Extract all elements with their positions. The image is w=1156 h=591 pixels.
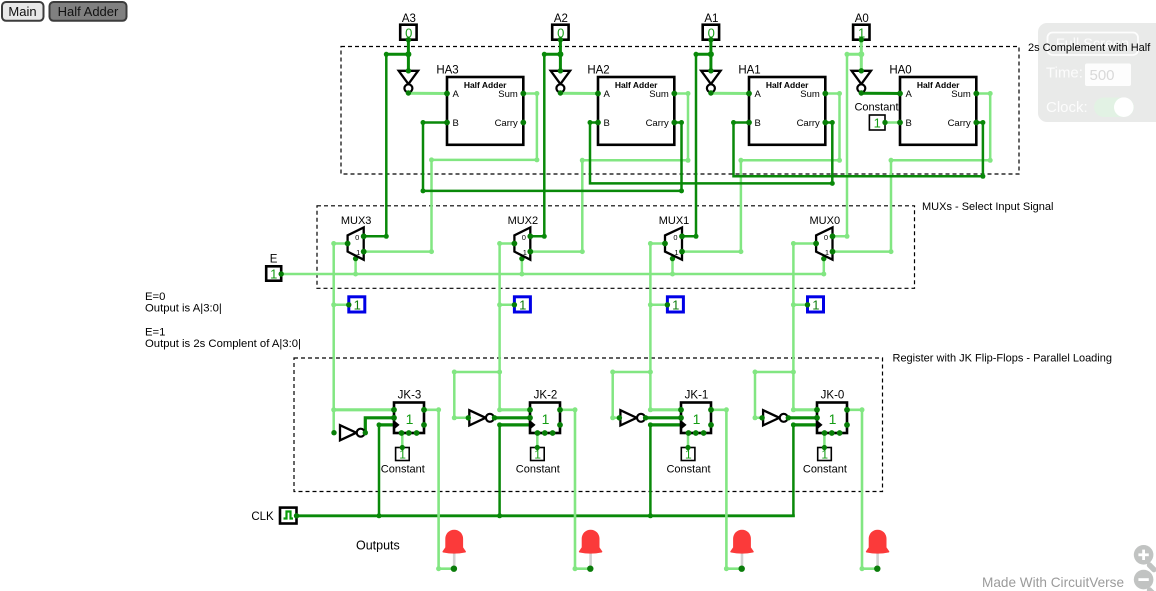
half adder HA2 (subcircuit box) <box>587 65 677 145</box>
svg-text:A3: A3 <box>402 13 416 25</box>
multiplexer MUX3 <box>341 215 372 260</box>
wire NOT-K1 output to JK K <box>646 416 681 419</box>
constant 1 below JK-2 <box>516 445 560 476</box>
svg-text:JK-1: JK-1 <box>685 389 709 401</box>
svg-text:B: B <box>604 118 610 129</box>
svg-text:Register with JK Flip-Flops -: Register with JK Flip-Flops - Parallel L… <box>893 353 1112 365</box>
LED output 1 (lit red) <box>730 530 753 572</box>
svg-text:A: A <box>604 89 611 100</box>
properties panel <box>1038 23 1156 122</box>
wire A1 input to top junction <box>709 40 712 54</box>
wire A0 input to top junction <box>860 40 863 54</box>
wire A0 to NOT gate <box>860 54 863 71</box>
svg-text:0: 0 <box>355 233 359 242</box>
zoom in button <box>1134 545 1156 573</box>
svg-text:Sum: Sum <box>498 89 518 100</box>
svg-text:0: 0 <box>824 233 828 242</box>
wire A2 raw branch to MUX2 input 0 <box>544 53 560 56</box>
not gate (inverter) for A0 <box>852 68 871 96</box>
svg-text:500: 500 <box>1090 67 1115 84</box>
wire MUX3 output net <box>334 244 348 305</box>
svg-text:Output is A|3:0|: Output is A|3:0| <box>145 303 222 315</box>
svg-text:Half Adder: Half Adder <box>58 4 119 19</box>
not gate for JK-3 K input <box>331 425 368 440</box>
wire A3 raw branch to MUX3 input 0 <box>386 53 408 56</box>
input A3 <box>400 13 416 43</box>
wire E select bus <box>281 273 824 276</box>
input E (select) <box>266 253 284 281</box>
wire A2 to NOT gate <box>559 54 562 71</box>
wire A2 input to top junction <box>559 40 562 54</box>
wire branch to K inverter 0 <box>755 372 793 418</box>
svg-text:MUX2: MUX2 <box>508 215 539 227</box>
LED output 2 (lit red) <box>579 530 602 572</box>
wire mux2 net down to JK J input <box>498 305 501 410</box>
wire NOT-K2 output to JK K <box>495 416 531 419</box>
svg-text:Sum: Sum <box>649 89 669 100</box>
svg-text:HA3: HA3 <box>436 65 458 77</box>
svg-text:Carry: Carry <box>646 118 669 129</box>
svg-text:Sum: Sum <box>800 89 820 100</box>
svg-text:1: 1 <box>523 248 527 257</box>
wire HA2 Carry to HA3 pin B <box>423 123 682 191</box>
wire mux1 net down to JK J input <box>649 305 652 410</box>
wire A3 to NOT gate <box>407 54 410 71</box>
constant 1 below JK-3 <box>381 445 425 476</box>
wire to output box 1 <box>650 304 667 307</box>
svg-text:2s Complement with Half: 2s Complement with Half <box>1028 42 1151 54</box>
constant 1 below JK-0 <box>803 445 847 476</box>
svg-text:HA0: HA0 <box>889 65 911 77</box>
not gate (inverter) for A1 <box>701 68 720 96</box>
constant 1 feeding HA0 B <box>854 102 898 131</box>
wire Constant to JK-1 preset <box>687 433 690 448</box>
wire clock to JK-2 <box>498 425 501 516</box>
wire JK-2 Q to LED <box>560 410 590 569</box>
tab: Main <box>2 2 44 21</box>
wire CLK bus <box>297 514 794 517</box>
wire HA1 Carry to HA2 pin B <box>590 123 832 184</box>
svg-text:A1: A1 <box>704 13 718 25</box>
svg-text:Constant: Constant <box>381 464 425 476</box>
svg-text:B: B <box>755 118 761 129</box>
wire A3 input to top junction <box>407 40 410 54</box>
wire HA1 Sum to MUX1 input 1 <box>682 94 840 252</box>
svg-text:0: 0 <box>522 233 526 242</box>
half adder HA1 (subcircuit box) <box>738 65 828 145</box>
wire clock to JK-0 <box>792 425 795 516</box>
svg-text:Constant: Constant <box>666 464 710 476</box>
dashed box: MUX region <box>317 206 915 288</box>
wire HA2 Sum to MUX2 input 1 <box>530 94 688 252</box>
wire HA0 Carry to HA1 pin B <box>734 123 983 177</box>
svg-text:1: 1 <box>354 298 361 313</box>
svg-text:B: B <box>906 118 912 129</box>
svg-text:1: 1 <box>812 298 819 313</box>
wire branch to K inverter 2 <box>454 372 499 418</box>
wire NOT0 output to HA0 pin A <box>861 92 900 95</box>
JK flip-flop JK-3 <box>391 389 427 436</box>
svg-text:MUX3: MUX3 <box>341 215 372 227</box>
wire MUX select stub <box>671 256 674 275</box>
input A1 <box>703 13 719 43</box>
svg-text:A0: A0 <box>855 13 869 25</box>
svg-text:0: 0 <box>673 233 677 242</box>
wire A1 to NOT gate <box>709 54 712 71</box>
not gate for JK-0 K input <box>759 410 791 425</box>
svg-text:E=0: E=0 <box>145 291 165 303</box>
wire A1 raw branch to MUX1 input 0 <box>696 53 711 56</box>
svg-text:1: 1 <box>674 248 678 257</box>
svg-text:Carry: Carry <box>948 118 971 129</box>
svg-text:Made With CircuitVerse: Made With CircuitVerse <box>982 575 1124 590</box>
svg-text:JK-2: JK-2 <box>534 389 558 401</box>
wire MUX select stub <box>354 256 357 275</box>
svg-text:A: A <box>453 89 460 100</box>
wire branch to K inverter 1 <box>613 372 651 418</box>
svg-text:Outputs: Outputs <box>356 539 400 553</box>
svg-text:A: A <box>755 89 762 100</box>
output box O1 (value 1) <box>665 297 684 313</box>
constant 1 below JK-1 <box>666 445 710 476</box>
svg-text:1: 1 <box>406 411 414 427</box>
svg-text:Constant: Constant <box>854 102 898 114</box>
wire Constant to HA0 pin B <box>885 121 900 124</box>
not gate (inverter) for A2 <box>551 68 570 96</box>
svg-text:Output is 2s Complent of A|3:0: Output is 2s Complent of A|3:0| <box>145 338 301 350</box>
multiplexer MUX0 <box>810 215 841 260</box>
wire to output box 2 <box>500 304 515 307</box>
svg-text:HA2: HA2 <box>587 65 609 77</box>
svg-text:Constant: Constant <box>516 464 560 476</box>
wire JK-0 Q to LED <box>847 410 877 569</box>
JK flip-flop JK-0 <box>814 389 850 436</box>
svg-text:JK-3: JK-3 <box>398 389 422 401</box>
wire mux3 net down to JK-3 J and NOT input <box>332 305 335 433</box>
half adder HA0 (subcircuit box) <box>889 65 979 145</box>
svg-text:1: 1 <box>356 248 360 257</box>
multiplexer MUX1 <box>659 215 690 260</box>
wire HA3 Sum to MUX3 input 1 <box>364 94 537 252</box>
LED output 3 (lit red) <box>442 530 465 572</box>
LED output 0 (lit red) <box>866 530 889 572</box>
svg-text:B: B <box>453 118 459 129</box>
svg-text:MUX0: MUX0 <box>810 215 841 227</box>
svg-text:JK-0: JK-0 <box>821 389 845 401</box>
svg-text:1: 1 <box>519 298 526 313</box>
wire clock to JK-1 <box>649 425 652 516</box>
wire E input to select bus <box>280 273 283 276</box>
svg-text:A2: A2 <box>554 13 568 25</box>
not gate for JK-2 K input <box>466 410 498 425</box>
svg-text:1: 1 <box>874 115 881 130</box>
half adder HA3 (subcircuit box) <box>436 65 526 145</box>
wire NOT3 output to HA3 pin A <box>408 92 447 95</box>
wire MUX1 output net <box>650 244 665 305</box>
output box O0 (value 1) <box>805 297 824 313</box>
svg-text:1: 1 <box>693 411 701 427</box>
wire MUX select stub <box>521 256 524 275</box>
output box O3 (value 1) <box>346 297 365 313</box>
svg-text:HA1: HA1 <box>738 65 760 77</box>
svg-text:E=1: E=1 <box>145 327 165 339</box>
svg-text:MUXs - Select Input Signal: MUXs - Select Input Signal <box>922 201 1053 213</box>
svg-text:MUX1: MUX1 <box>659 215 690 227</box>
not gate (inverter) for A3 <box>399 68 418 96</box>
tab: Half Adder (active) <box>50 2 127 21</box>
multiplexer MUX2 <box>508 215 539 260</box>
wire JK-3 Q to LED <box>424 410 454 569</box>
wire NOT-K0 output to JK K <box>788 416 817 419</box>
zoom out button <box>1134 570 1156 591</box>
svg-text:Main: Main <box>8 4 36 19</box>
svg-text:Time:: Time: <box>1046 65 1083 82</box>
JK flip-flop JK-1 <box>678 389 714 436</box>
wire NOT-K3 output to JK-3 K <box>365 418 394 433</box>
svg-text:Sum: Sum <box>951 89 971 100</box>
svg-text:A: A <box>906 89 913 100</box>
input A0 <box>853 13 869 43</box>
clock input CLK <box>251 508 299 524</box>
dashed box: 2s complement subcircuit region <box>341 47 1019 175</box>
wire Constant to JK-0 preset <box>823 433 826 448</box>
wire to output box 3 <box>334 304 349 307</box>
wire Constant to JK-2 preset <box>536 433 539 448</box>
wire A0 raw branch to MUX0 input 0 <box>847 53 861 56</box>
wire JK-1 Q to LED <box>711 410 742 569</box>
svg-text:Clock:: Clock: <box>1046 99 1088 116</box>
svg-text:Constant: Constant <box>803 464 847 476</box>
svg-text:1: 1 <box>270 266 277 281</box>
svg-text:1: 1 <box>829 411 837 427</box>
JK flip-flop JK-2 <box>527 389 563 436</box>
dashed box: JK register region <box>294 358 883 492</box>
wire MUX2 output net <box>500 244 515 305</box>
wire clock to JK-3 <box>378 425 381 516</box>
not gate for JK-1 K input <box>617 410 649 425</box>
wire to output box 0 <box>793 304 807 307</box>
svg-text:1: 1 <box>825 248 829 257</box>
svg-text:E: E <box>270 253 278 265</box>
wire mux0 net down to JK J input <box>792 305 795 410</box>
wire Constant to JK-3 preset <box>401 433 404 448</box>
wire NOT2 output to HA2 pin A <box>560 92 598 95</box>
svg-text:Carry: Carry <box>495 118 518 129</box>
wire NOT1 output to HA1 pin A <box>711 92 749 95</box>
wire MUX0 output net <box>793 244 816 305</box>
input A2 <box>552 13 568 43</box>
output box O2 (value 1) <box>512 297 531 313</box>
wire MUX select stub <box>823 256 826 275</box>
svg-text:1: 1 <box>542 411 550 427</box>
svg-text:CLK: CLK <box>251 511 274 523</box>
svg-text:1: 1 <box>672 298 679 313</box>
wire HA0 Sum to MUX0 input 1 <box>833 94 991 252</box>
svg-text:Carry: Carry <box>797 118 820 129</box>
